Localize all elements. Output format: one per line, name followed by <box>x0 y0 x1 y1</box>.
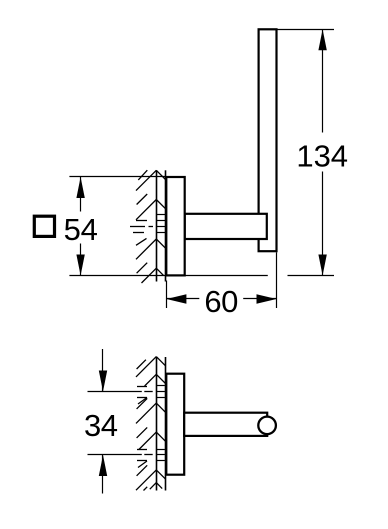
extension line top of rod <box>277 29 334 31</box>
arrowhead 34 bottom <box>99 455 107 476</box>
arrowhead 60 left <box>166 294 186 304</box>
arrowhead 134 top <box>318 29 326 50</box>
wall plate (top view) <box>166 374 184 475</box>
mounting arm (front view) <box>185 214 267 239</box>
extension line right (60) <box>276 252 278 308</box>
extension line plate top (54) <box>69 176 166 178</box>
wall section rungs (front view) <box>156 215 165 233</box>
hole centre dashes (top view) <box>144 392 152 455</box>
dimension leader lines 34 <box>102 349 104 494</box>
hatch break lines (front view) <box>133 221 147 246</box>
arrowhead 34 top <box>99 371 107 392</box>
centre line of arm (front view) <box>130 226 153 228</box>
arrowhead 134 bottom <box>318 255 326 276</box>
arrowhead 54 bottom <box>76 255 84 276</box>
vertical rod (front view) <box>259 29 277 251</box>
arrowhead 54 top <box>76 177 84 198</box>
arrowhead 60 right <box>257 294 277 304</box>
svg-text:134: 134 <box>296 138 348 173</box>
wall section rungs (top view) <box>156 386 165 461</box>
wall surface lines (top view) <box>157 357 166 491</box>
extension line bottom right (134) <box>288 275 335 277</box>
extension line upper hole (34) <box>88 391 142 393</box>
dimension line 134 <box>322 29 324 275</box>
rod cross-section circle (top view) <box>258 417 276 435</box>
wall hatching (top view) <box>136 357 166 491</box>
hatch break lines (top view) <box>137 387 147 468</box>
arm (top view) <box>184 413 267 436</box>
extension line left (60) <box>166 281 168 309</box>
svg-text:54: 54 <box>64 212 98 247</box>
svg-text:34: 34 <box>84 408 118 443</box>
svg-text:60: 60 <box>204 284 238 319</box>
wall plate (front view) <box>166 177 184 275</box>
wall surface lines (front view) <box>157 170 166 281</box>
square symbol <box>34 216 54 236</box>
wall hatching (front view) <box>136 170 166 283</box>
extension line lower hole (34) <box>88 454 142 456</box>
extension line plate bottom (54) <box>69 275 267 277</box>
dimension line 54 <box>80 177 82 276</box>
dimension line 60 <box>166 298 276 300</box>
